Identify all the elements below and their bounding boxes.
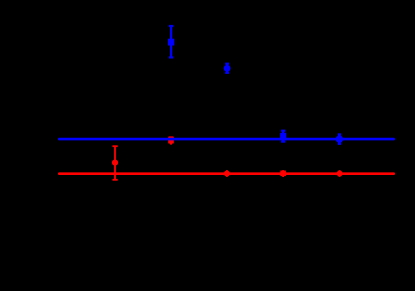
red point P3 marker: [280, 171, 286, 177]
blue point Q3 marker (square): [280, 133, 286, 140]
blue point Q4 error bar: [338, 134, 341, 143]
red point P5 marker (under blue line): [168, 136, 174, 143]
red point P3 error bar: [282, 170, 284, 177]
blue point Q2 error bar: [225, 64, 229, 73]
blue point Q2 marker (circle): [224, 65, 231, 72]
blue point Q1 error bar: [169, 26, 173, 57]
blue point Q4 marker (circle): [336, 135, 343, 142]
red point P1 error bar: [112, 146, 117, 180]
red point P5 (on blue line) error bar: [170, 139, 172, 145]
red point P4 error bar: [339, 170, 341, 177]
blue point Q1 marker (square): [168, 39, 174, 46]
blue series line: [58, 138, 395, 141]
red point P4 marker: [337, 171, 343, 177]
red point P1 marker: [112, 160, 118, 166]
red point P2 marker: [224, 171, 230, 177]
blue point Q3 error bar: [281, 131, 285, 142]
red series line: [58, 172, 395, 175]
red point P2 error bar: [226, 170, 228, 177]
